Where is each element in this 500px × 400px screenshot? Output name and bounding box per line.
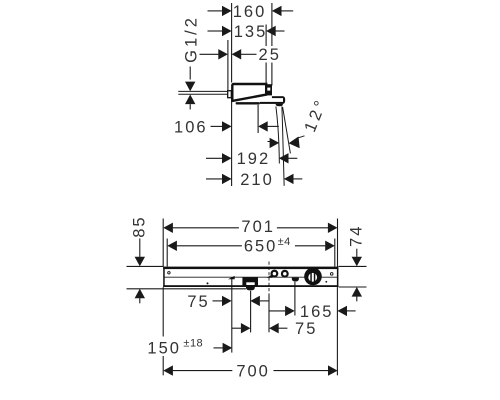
marker wedge at ring [267,274,273,277]
extension line right below bar [336,287,338,375]
extension line outlet center [294,282,296,316]
stream axis 12 deg [283,107,291,153]
svg-text:75: 75 [187,293,209,311]
knob inner [308,273,317,282]
bar body bottom edge [163,285,338,287]
svg-text:192: 192 [237,150,271,168]
knob bars [310,272,312,282]
extension line below body [231,98,233,186]
svg-text:106: 106 [174,118,208,136]
dimension 75 left [187,293,269,311]
supply pipe G1/2 [178,91,228,94]
svg-text:±4: ±4 [278,236,291,248]
angle leader [268,136,305,148]
extension line left below bar [162,287,164,375]
knob dot [325,281,327,283]
dimension 650 +-4 [167,236,334,256]
spout arm right cap [283,96,285,104]
outlet blob [292,278,299,282]
dimension 700 [163,363,337,381]
dimension 85 [127,215,246,303]
spout nose front [246,286,255,290]
svg-text:165: 165 [300,303,334,321]
extension line 160 right [271,3,273,86]
dimension 75 right [232,320,317,338]
ring 1 [272,271,278,277]
knob [304,268,322,286]
dimension 150 +-18 [145,337,233,358]
dimension 135 [208,23,285,41]
dimension 74 [339,225,367,302]
spout arm bottom band [260,102,283,104]
left screw [168,272,170,274]
dimension 106 [174,118,279,136]
spout block front [242,278,258,287]
small dot left [207,282,209,284]
escutcheon tab [228,91,232,98]
pivot block [265,84,272,95]
svg-text:G1/2: G1/2 [182,15,200,63]
centerline dashed [268,262,270,295]
water stream line left [276,106,279,163]
svg-text:±18: ±18 [183,338,203,350]
extension line marker 231 [231,278,233,353]
svg-text:135: 135 [234,23,268,41]
pivot notch [267,88,270,91]
svg-text:650: 650 [244,238,278,256]
extension line left above bar [162,219,164,267]
extension line 650 left [166,239,168,267]
bar left edge [163,267,165,287]
extension line 650 right [334,239,336,267]
bar mid line [164,276,338,278]
svg-text:12°: 12° [301,95,331,135]
svg-text:700: 700 [236,363,270,381]
body bottom band [236,102,260,104]
svg-text:701: 701 [241,218,275,236]
dimension 165 [269,303,356,321]
extension line 106 right [257,105,259,133]
extension line spout center [250,291,252,333]
svg-text:85: 85 [130,215,148,237]
bar right edge [337,267,339,287]
water stream line right [282,106,284,185]
extension line escutcheon wall [227,40,229,91]
svg-text:25: 25 [259,46,281,64]
svg-text:74: 74 [347,225,365,247]
marker wedge at 231 [228,276,235,279]
svg-text:150: 150 [147,340,181,358]
spout body wedge [232,84,266,101]
dimension 25 [200,46,282,64]
svg-text:160: 160 [233,3,267,21]
svg-text:210: 210 [240,171,274,189]
extension line right above bar [337,219,339,267]
right screw [330,273,333,276]
dimension 160 [208,3,294,21]
dimension 210 [206,171,302,189]
bar body top edge [163,267,338,270]
extension line 135 right [265,25,267,84]
G1/2 leader and arrows [185,67,195,110]
spout arm top edge [272,96,283,98]
dimension 701 [163,218,337,236]
dimension 192 [206,150,297,168]
ring 2 [282,271,288,277]
spout slot front [246,282,254,285]
svg-text:75: 75 [295,320,317,338]
extension line wall/body-left (top view) [231,3,233,83]
spout drip lip [276,104,283,107]
